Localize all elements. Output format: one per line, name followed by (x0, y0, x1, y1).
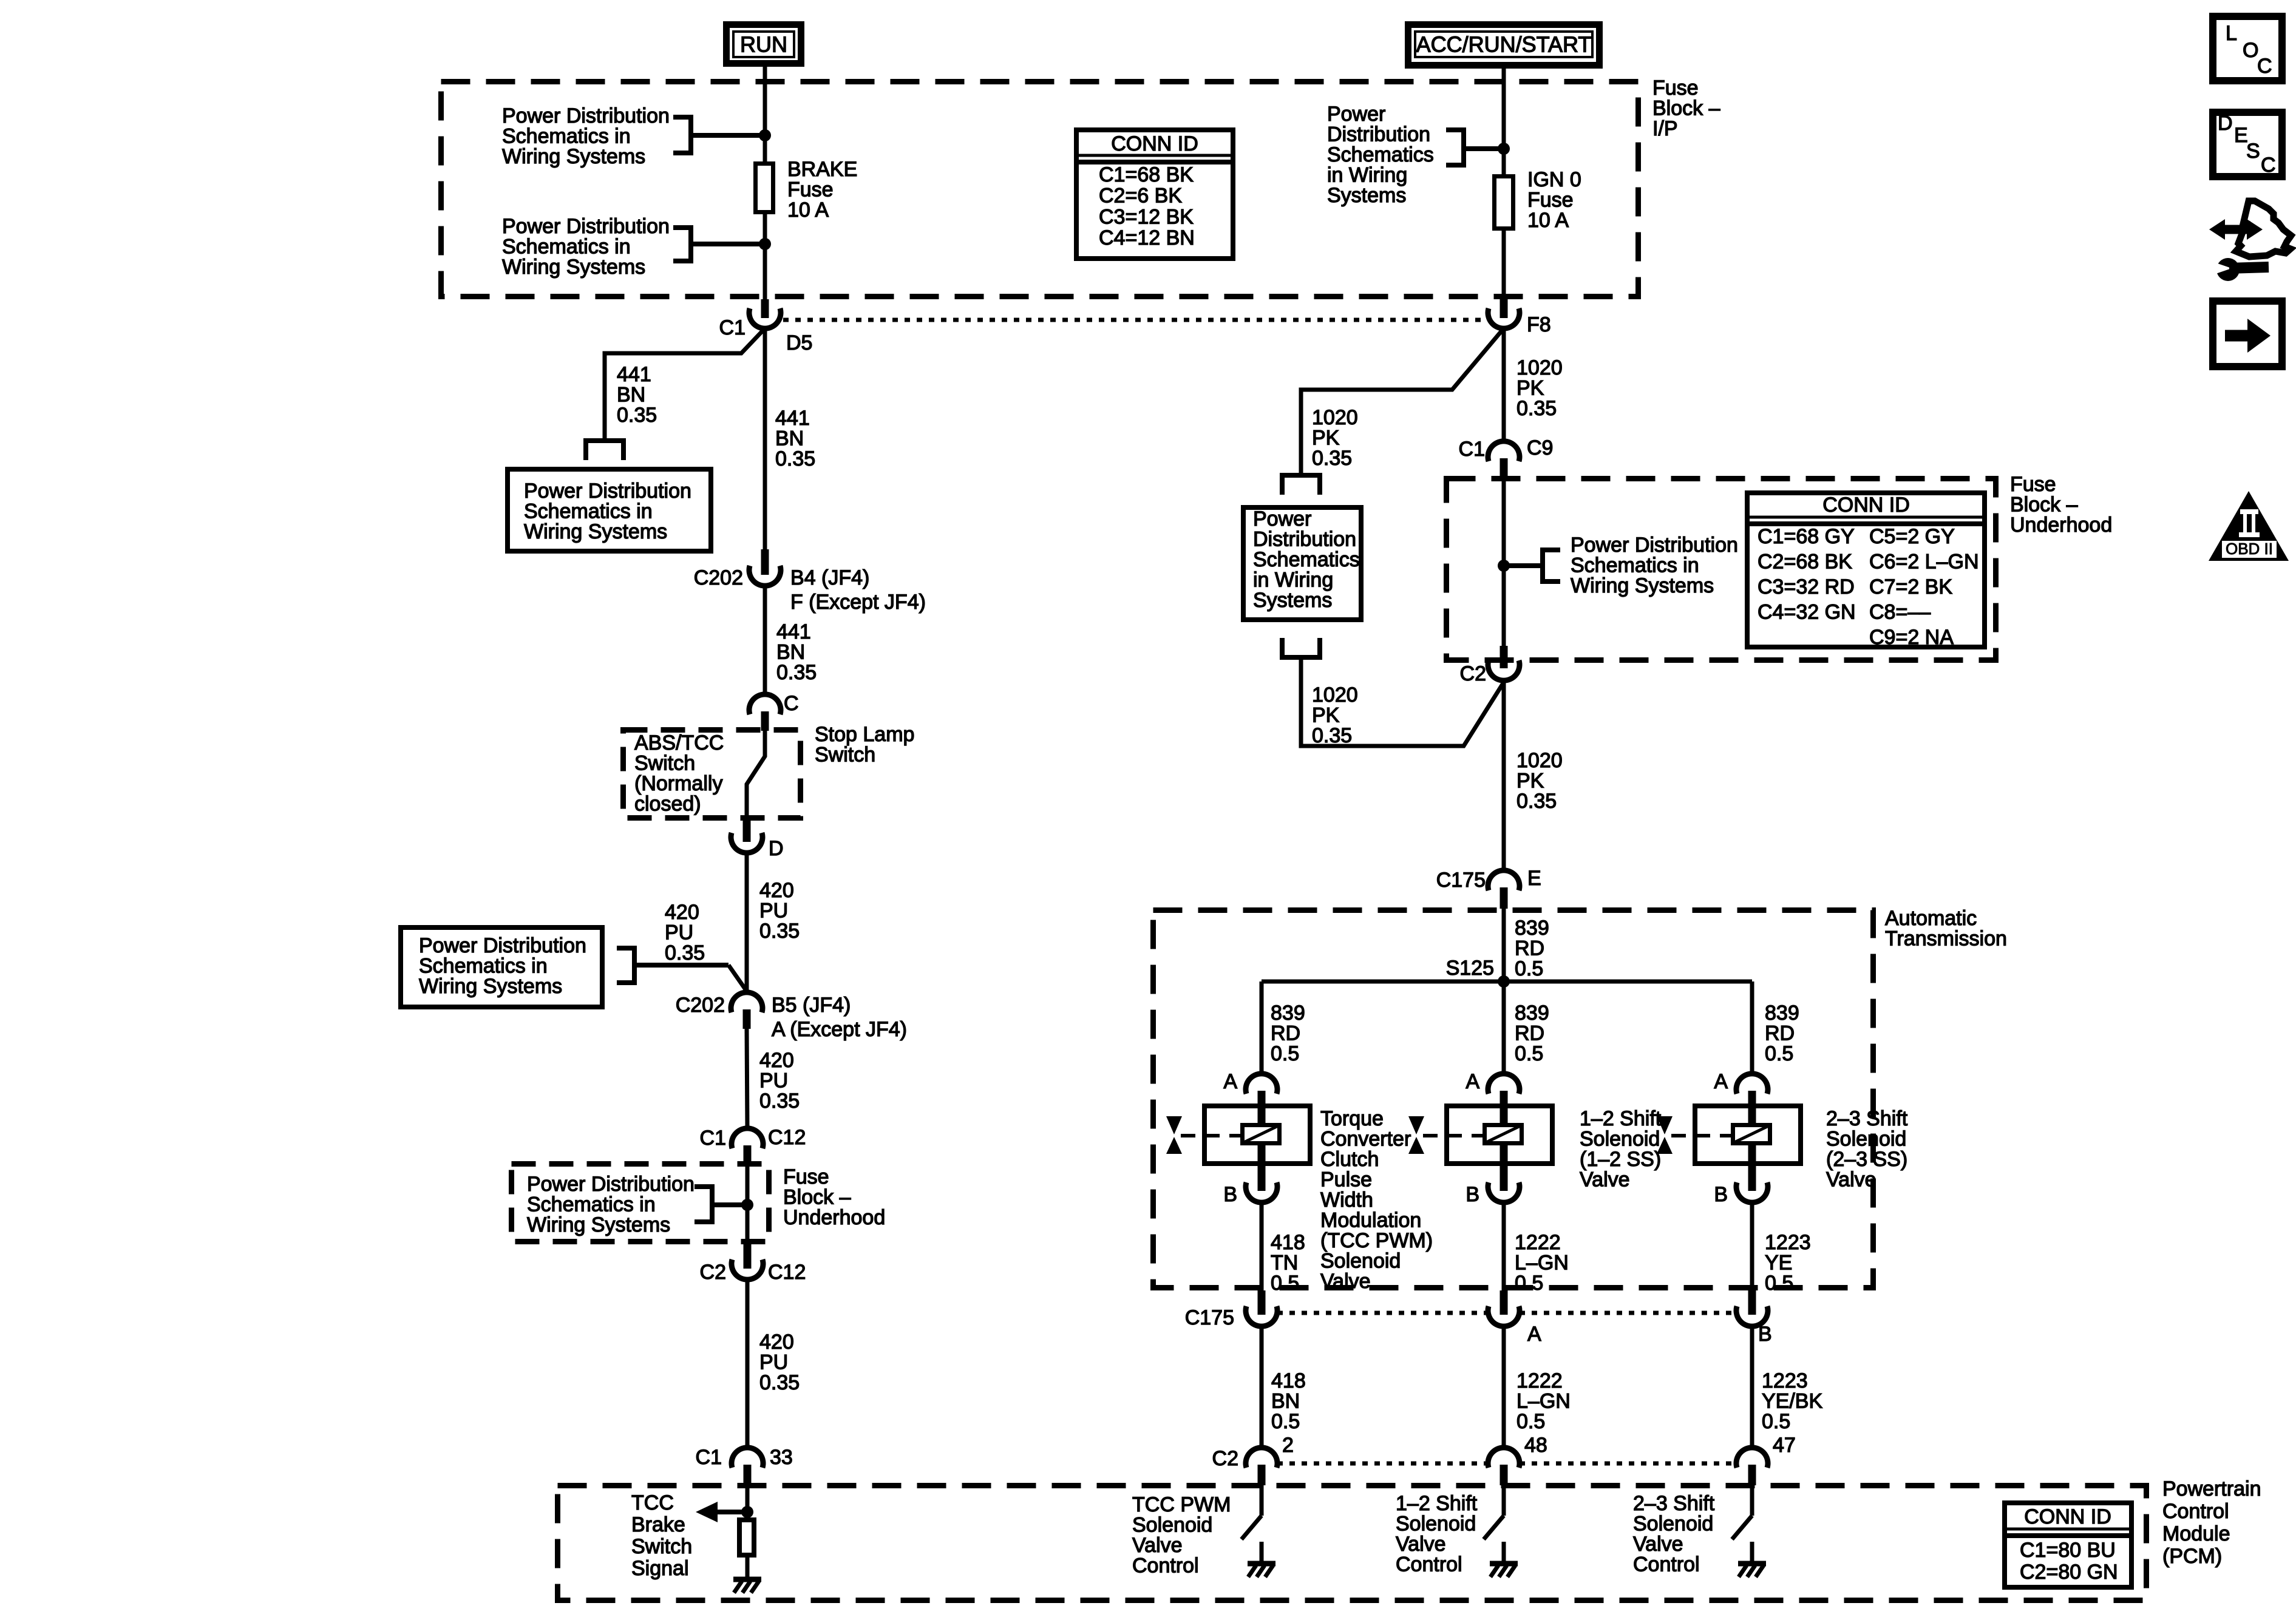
label: circuit 1020 PK 0.35 (to C175) (1517, 749, 1563, 813)
wire: 1020 to automatic transmission (1502, 680, 1506, 870)
svg-text:0.35: 0.35 (759, 920, 800, 943)
svg-text:C12: C12 (768, 1261, 806, 1284)
svg-text:420: 420 (759, 1331, 794, 1354)
wire: ACC/RUN/START feed (1502, 69, 1506, 302)
svg-text:PK: PK (1517, 770, 1544, 793)
svg-text:Block –: Block – (2010, 493, 2078, 517)
svg-text:closed): closed) (634, 793, 701, 816)
svg-text:RD: RD (1765, 1022, 1795, 1045)
switch blade (normally closed) (747, 727, 765, 821)
label: 1-2 Shift Solenoid Valve Control (1396, 1492, 1478, 1576)
svg-text:Control: Control (1132, 1554, 1199, 1578)
svg-text:B: B (1714, 1183, 1728, 1206)
svg-text:C3=12 BK: C3=12 BK (1099, 205, 1194, 228)
svg-text:Wiring Systems: Wiring Systems (502, 145, 645, 168)
svg-text:RD: RD (1271, 1022, 1300, 1045)
svg-text:0.5: 0.5 (1515, 957, 1543, 980)
connector C175 / E (1488, 870, 1520, 909)
svg-text:1–2 Shift: 1–2 Shift (1580, 1107, 1662, 1130)
svg-text:1223: 1223 (1765, 1231, 1811, 1254)
solenoid: 1-2 shift valve (1408, 1101, 1552, 1166)
svg-text:BN: BN (776, 641, 805, 664)
label C1 (PCM) (696, 1446, 722, 1469)
connector C175 row (AT pass-through) (1736, 1290, 1768, 1326)
svg-text:839: 839 (1271, 1002, 1305, 1025)
svg-text:2–3 Shift: 2–3 Shift (1633, 1492, 1715, 1515)
label: circuit 1020 PK 0.35 (branch upper) (1312, 406, 1358, 470)
label: circuit 1223 YE 0.5 (1765, 1231, 1811, 1295)
label C202 (lower) (676, 994, 725, 1017)
svg-text:Schematics in: Schematics in (1571, 554, 1699, 577)
reference box right: Power Distribution Schematics in Wiring Systems (1243, 507, 1361, 620)
label B5 (JF4) / A (Except JF4) (772, 994, 907, 1041)
svg-text:Wiring Systems: Wiring Systems (1571, 574, 1714, 597)
label C9 (1527, 436, 1553, 459)
svg-text:TCC: TCC (631, 1491, 674, 1514)
svg-text:Power Distribution: Power Distribution (527, 1173, 695, 1196)
svg-text:L: L (2226, 22, 2237, 45)
CONN ID table (Fuse Block - Underhood) (1747, 493, 1985, 649)
wire: branch from F8 to reference box (right) (1301, 328, 1504, 473)
svg-text:0.35: 0.35 (1517, 790, 1557, 813)
svg-text:E: E (1527, 867, 1541, 890)
label: circuit 839 RD 0.5 (middle branch) (1515, 1002, 1549, 1065)
wire: 2-3 shift solenoid branch (1750, 981, 1754, 1074)
svg-text:(Normally: (Normally (634, 772, 722, 795)
svg-text:Power Distribution: Power Distribution (524, 480, 691, 503)
svg-text:C1=80 BU: C1=80 BU (2020, 1539, 2116, 1562)
dotted tie line C1/D5 to F8 (783, 318, 1486, 322)
svg-text:Valve: Valve (1132, 1534, 1183, 1557)
svg-text:CONN ID: CONN ID (1822, 493, 1910, 517)
svg-text:Systems: Systems (1253, 589, 1332, 612)
label C (784, 692, 799, 715)
svg-text:C3=32 RD: C3=32 RD (1758, 575, 1855, 598)
svg-text:Fuse: Fuse (787, 178, 834, 202)
label A (1466, 1070, 1479, 1093)
Fuse Block - Underhood dashed enclosure (left) (512, 1164, 769, 1242)
connector F8 (fuse block I/P, right) (1488, 299, 1520, 328)
off-page bracket into reference box 1 (586, 438, 623, 460)
wire into PCM (brake signal) (746, 1482, 750, 1517)
label: Stop Lamp Switch (815, 723, 914, 767)
svg-text:RD: RD (1515, 937, 1544, 960)
svg-text:C1: C1 (719, 316, 746, 339)
svg-text:1223: 1223 (1762, 1369, 1808, 1392)
connector C1 / D5 (fuse block I/P, left) (749, 299, 781, 328)
svg-text:420: 420 (759, 879, 794, 902)
svg-text:C1: C1 (1459, 438, 1485, 461)
svg-text:B: B (1466, 1183, 1479, 1206)
svg-text:441: 441 (775, 407, 810, 430)
svg-text:PU: PU (759, 1070, 788, 1093)
label: circuit 418 TN 0.5 (1271, 1231, 1305, 1295)
svg-text:ACC/RUN/START: ACC/RUN/START (1416, 32, 1592, 56)
icon: LOC box (2213, 16, 2282, 81)
label E (1527, 867, 1541, 890)
label: IGN 0 Fuse 10 A (1527, 168, 1581, 232)
label: Automatic Transmission (1885, 907, 2007, 951)
svg-text:Control: Control (1396, 1553, 1462, 1576)
svg-text:420: 420 (665, 901, 699, 924)
svg-text:441: 441 (617, 363, 651, 386)
svg-text:1020: 1020 (1517, 356, 1563, 379)
svg-text:C5=2 GY: C5=2 GY (1869, 525, 1955, 548)
svg-text:D: D (2218, 112, 2233, 135)
svg-text:Valve: Valve (1826, 1168, 1877, 1192)
svg-text:ABS/TCC: ABS/TCC (634, 731, 724, 754)
svg-text:Wiring Systems: Wiring Systems (524, 520, 667, 543)
svg-text:Transmission: Transmission (1885, 927, 2007, 951)
svg-text:C6=2 L–GN: C6=2 L–GN (1869, 551, 1979, 574)
label A (1223, 1070, 1237, 1093)
svg-text:in Wiring: in Wiring (1253, 569, 1333, 592)
svg-text:418: 418 (1271, 1231, 1305, 1254)
svg-text:0.5: 0.5 (1271, 1042, 1299, 1065)
svg-text:Solenoid: Solenoid (1396, 1513, 1476, 1536)
svg-text:0.35: 0.35 (776, 661, 817, 684)
junction node (brake signal) (741, 1506, 753, 1518)
solenoid: 2-3 shift valve (1657, 1101, 1801, 1166)
svg-text:Distribution: Distribution (1253, 528, 1356, 551)
label F8 (1527, 313, 1551, 336)
svg-text:0.35: 0.35 (759, 1090, 800, 1113)
reference: Power Distribution Schematics in Wiring Systems (underhood right) (1571, 534, 1738, 597)
label: circuit 1222 L-GN 0.5 (in AT) (1515, 1231, 1569, 1295)
label: circuit 420 PU 0.35 (to PCM) (759, 1331, 800, 1394)
svg-text:C1: C1 (696, 1446, 722, 1469)
svg-text:47: 47 (1773, 1434, 1796, 1457)
wire: RUN feed into fuse block (763, 67, 767, 302)
bracket (underhood reference) (695, 1184, 745, 1224)
wire: branch rejoining at C2 (1301, 657, 1504, 746)
Fuse Block - Underhood dashed enclosure (right) (1447, 479, 1996, 660)
svg-text:B: B (1758, 1323, 1772, 1346)
svg-text:Solenoid: Solenoid (1580, 1128, 1660, 1151)
wire: 1-2 shift solenoid branch (1502, 981, 1506, 1074)
connector B (solenoid) (1488, 1166, 1520, 1202)
svg-text:Schematics: Schematics (1327, 143, 1434, 166)
driver switch: TCC PWM solenoid valve control (1241, 1483, 1275, 1577)
svg-text:RUN: RUN (740, 32, 787, 56)
label C1 (underhood) (700, 1127, 726, 1150)
wire: 839 feed to splice (1502, 909, 1506, 981)
Fuse Block - I/P dashed enclosure (441, 82, 1639, 297)
bracket (underhood right reference) (1506, 547, 1560, 584)
connector C1 / C9 (1488, 441, 1520, 476)
reference box: Power Distribution Schematics in Wiring Systems (508, 469, 711, 551)
svg-text:B4 (JF4): B4 (JF4) (790, 566, 869, 589)
svg-text:B: B (1223, 1183, 1237, 1206)
svg-text:48: 48 (1524, 1434, 1547, 1457)
label: circuit 418 BN 0.5 (1271, 1369, 1306, 1433)
svg-text:C2: C2 (1212, 1447, 1238, 1470)
svg-text:S: S (2246, 140, 2260, 163)
svg-text:Solenoid: Solenoid (1320, 1250, 1401, 1273)
connector C2/PCM pin row (1246, 1448, 1277, 1485)
svg-text:0.35: 0.35 (1517, 397, 1557, 420)
icon: wrench (2212, 258, 2269, 281)
solenoid: torque converter clutch PWM valve (1166, 1101, 1310, 1166)
connector C175 row (AT pass-through) (1246, 1290, 1277, 1326)
svg-text:PK: PK (1312, 427, 1340, 450)
svg-text:A: A (1527, 1323, 1541, 1346)
svg-text:1222: 1222 (1515, 1231, 1561, 1254)
Automatic Transmission dashed enclosure (1153, 910, 1873, 1288)
svg-text:C: C (784, 692, 799, 715)
svg-text:Schematics in: Schematics in (527, 1193, 656, 1216)
wire: 1020 main run to C1/C9 (1502, 328, 1506, 441)
junction node (RUN feed / reference 1) (759, 129, 771, 141)
label A (1714, 1070, 1728, 1093)
svg-text:YE/BK: YE/BK (1762, 1390, 1822, 1413)
label: circuit 441 BN 0.35 (to switch) (776, 620, 817, 684)
connector B (solenoid) (1736, 1166, 1768, 1202)
connector C2 (underhood right) (1488, 646, 1520, 680)
connector A (solenoid) (1246, 1074, 1277, 1106)
label C175 (E row) (1436, 869, 1486, 892)
label B (1714, 1183, 1728, 1206)
svg-text:0.5: 0.5 (1765, 1042, 1793, 1065)
svg-text:Block –: Block – (1652, 97, 1720, 120)
svg-text:839: 839 (1515, 1002, 1549, 1025)
junction node (underhood right reference) (1498, 560, 1510, 572)
svg-text:0.35: 0.35 (1312, 447, 1352, 470)
reference box 2: Power Distribution Schematics in Wiring Systems (401, 927, 602, 1007)
svg-text:1020: 1020 (1312, 683, 1358, 707)
svg-text:Schematics in: Schematics in (524, 500, 653, 523)
svg-text:0.5: 0.5 (1515, 1042, 1543, 1065)
svg-text:0.35: 0.35 (1312, 724, 1352, 747)
svg-text:2: 2 (1282, 1434, 1294, 1457)
svg-text:PU: PU (759, 900, 788, 923)
label B (row 2) (1758, 1323, 1772, 1346)
wire: 420 to PCM (746, 1280, 750, 1448)
svg-text:Width: Width (1320, 1188, 1373, 1212)
wire: solenoid return (1260, 1202, 1264, 1290)
ignition switch position box ACC/RUN/START (1408, 25, 1600, 66)
wire: branch from C1/D5 to reference box (605, 328, 765, 439)
svg-text:RD: RD (1515, 1022, 1544, 1045)
svg-text:0.5: 0.5 (1515, 1272, 1543, 1295)
label C2 (PCM) (1212, 1447, 1238, 1470)
svg-text:A: A (1223, 1070, 1237, 1093)
svg-text:C9: C9 (1527, 436, 1553, 459)
label C12 (upper) (768, 1126, 806, 1149)
svg-text:1020: 1020 (1517, 749, 1563, 772)
svg-text:F8: F8 (1527, 313, 1551, 336)
splice S125 bus (1262, 980, 1752, 984)
label C1 (719, 316, 746, 339)
svg-text:C9=2 NA: C9=2 NA (1869, 626, 1954, 649)
svg-text:C175: C175 (1436, 869, 1486, 892)
svg-text:Power Distribution: Power Distribution (502, 215, 670, 238)
label: 2-3 Shift Solenoid Valve Control (1633, 1492, 1715, 1576)
label pin 2 (1282, 1434, 1294, 1457)
svg-text:Schematics in: Schematics in (502, 125, 631, 148)
svg-text:IGN 0: IGN 0 (1527, 168, 1581, 191)
svg-text:C1=68 BK: C1=68 BK (1099, 163, 1194, 186)
wire to ground (PCM) (746, 1558, 750, 1579)
wire: to PCM (1502, 1326, 1506, 1448)
svg-text:0.5: 0.5 (1765, 1272, 1793, 1295)
svg-text:C202: C202 (676, 994, 725, 1017)
svg-text:420: 420 (759, 1049, 794, 1072)
svg-text:Distribution: Distribution (1327, 123, 1430, 146)
svg-text:CONN ID: CONN ID (1111, 132, 1198, 155)
svg-text:Powertrain: Powertrain (2162, 1477, 2261, 1500)
svg-text:Valve: Valve (1396, 1533, 1446, 1556)
wire: 420 from switch (745, 853, 749, 992)
svg-text:PU: PU (665, 921, 693, 944)
svg-text:Solenoid: Solenoid (1132, 1514, 1212, 1537)
label: circuit 1020 PK 0.35 (branch lower) (1312, 683, 1358, 747)
wire: 441 to stop lamp switch (763, 586, 767, 694)
svg-text:BN: BN (1271, 1390, 1300, 1413)
svg-text:OBD II: OBD II (2226, 540, 2273, 558)
svg-text:Pulse: Pulse (1320, 1168, 1372, 1192)
connector A (solenoid) (1736, 1074, 1768, 1106)
wire: TCC PWM solenoid branch (1260, 981, 1264, 1074)
driver switch: 2-3 shift solenoid valve control (1732, 1483, 1766, 1577)
wire through underhood block (746, 1164, 750, 1242)
svg-text:D5: D5 (786, 331, 812, 354)
svg-text:C1=68 GY: C1=68 GY (1758, 525, 1855, 548)
svg-text:A (Except JF4): A (Except JF4) (772, 1018, 907, 1041)
svg-text:Underhood: Underhood (783, 1206, 885, 1229)
label 33 (770, 1446, 793, 1469)
svg-text:C: C (2261, 154, 2276, 177)
label B4 (JF4) / F (Except JF4) (790, 566, 926, 614)
Powertrain Control Module dashed enclosure (558, 1486, 2147, 1601)
svg-text:L–GN: L–GN (1515, 1252, 1569, 1275)
svg-text:Brake: Brake (631, 1513, 685, 1536)
svg-text:Control: Control (1633, 1553, 1700, 1576)
svg-text:0.5: 0.5 (1517, 1410, 1545, 1433)
label: Powertrain Control Module (PCM) (2162, 1477, 2261, 1568)
label pin 48 (1524, 1434, 1547, 1457)
svg-text:(PCM): (PCM) (2162, 1545, 2222, 1568)
CONN ID table (PCM) (2005, 1503, 2131, 1587)
svg-text:Power: Power (1253, 507, 1311, 531)
svg-text:Power Distribution: Power Distribution (502, 104, 670, 127)
svg-text:D: D (769, 837, 784, 860)
svg-text:Fuse: Fuse (783, 1165, 829, 1188)
svg-text:839: 839 (1765, 1002, 1799, 1025)
label: TCC Brake Switch Signal (631, 1491, 692, 1580)
svg-text:YE: YE (1765, 1252, 1792, 1275)
svg-text:Power: Power (1327, 103, 1385, 126)
label: circuit 839 RD 0.5 (above splice) (1515, 917, 1549, 980)
svg-text:C2=80 GN: C2=80 GN (2020, 1561, 2118, 1584)
connector C202 / B5 (731, 992, 763, 1029)
label: circuit 441 BN 0.35 (main) (775, 407, 815, 470)
svg-text:0.5: 0.5 (1762, 1410, 1790, 1433)
label: 1-2 Shift Solenoid (1-2 SS) Valve (1580, 1107, 1662, 1192)
CONN ID table (Fuse Block - I/P) (1076, 130, 1233, 259)
label: BRAKE Fuse 10 A (787, 158, 857, 222)
svg-text:1222: 1222 (1517, 1369, 1563, 1392)
svg-text:A: A (1714, 1070, 1728, 1093)
bracket to RUN feed (lower) (673, 225, 763, 263)
svg-text:Fuse: Fuse (1527, 189, 1574, 212)
svg-text:Clutch: Clutch (1320, 1148, 1379, 1171)
label: Fuse Block - Underhood (left) (783, 1165, 885, 1229)
wire: 441 main run (763, 328, 767, 549)
connector C2/PCM pin row (1736, 1448, 1768, 1485)
svg-text:Systems: Systems (1327, 184, 1406, 207)
dotted tie line C175 row (1277, 1311, 1736, 1315)
svg-text:BN: BN (775, 427, 804, 450)
label: 2-3 Shift Solenoid (2-3 SS) Valve (1826, 1107, 1908, 1192)
svg-text:Wiring Systems: Wiring Systems (527, 1213, 670, 1236)
reference: Power Distribution Schematics in Wiring Systems (upper left) (502, 104, 670, 168)
svg-text:Fuse: Fuse (2010, 473, 2056, 496)
icon: throttle outline with arrows (2209, 201, 2291, 257)
bracket to IGN 0 feed (1446, 127, 1501, 168)
svg-text:B5 (JF4): B5 (JF4) (772, 994, 851, 1017)
svg-text:PK: PK (1517, 377, 1544, 400)
junction node (underhood reference) (741, 1199, 753, 1211)
svg-text:C4=32 GN: C4=32 GN (1758, 601, 1856, 624)
svg-text:Valve: Valve (1580, 1168, 1630, 1192)
connector D (stop lamp switch) (731, 821, 763, 853)
svg-text:Block –: Block – (783, 1186, 851, 1209)
svg-text:TN: TN (1271, 1252, 1298, 1275)
connector C1 / 33 (PCM) (732, 1448, 763, 1485)
wire: 420 to fuse block underhood (747, 1029, 747, 1128)
bracket from reference box 2 (617, 946, 747, 991)
connector C1 / C12 (732, 1128, 763, 1167)
svg-text:Signal: Signal (631, 1557, 689, 1580)
svg-text:(TCC PWM): (TCC PWM) (1320, 1229, 1433, 1252)
connector C2 / C12 (732, 1242, 763, 1280)
label C202 (upper) (694, 566, 743, 589)
svg-text:0.5: 0.5 (1271, 1272, 1299, 1295)
svg-text:Schematics in: Schematics in (419, 955, 548, 978)
label: circuit 1223 YE/BK 0.5 (1762, 1369, 1822, 1433)
label: circuit 420 PU 0.35 (below D) (759, 879, 800, 943)
svg-text:C8=––: C8=–– (1869, 601, 1931, 624)
svg-text:S125: S125 (1446, 957, 1494, 980)
svg-text:Power Distribution: Power Distribution (1571, 534, 1738, 557)
svg-text:Switch: Switch (634, 752, 695, 775)
reference: Power Distribution Schematics in Wiring Systems (right of IGN 0) (1327, 103, 1434, 207)
svg-text:TCC PWM: TCC PWM (1132, 1493, 1231, 1516)
label C12 (lower) (768, 1261, 806, 1284)
connector C202 / B4 (749, 549, 781, 586)
connector C2/PCM pin row (1488, 1448, 1520, 1485)
wire: to PCM (1260, 1326, 1264, 1448)
svg-text:10 A: 10 A (787, 198, 829, 222)
label: Fuse Block - Underhood (right) (2010, 473, 2112, 537)
resistor (PCM pull-up) (739, 1520, 754, 1555)
label C2 (underhood) (700, 1261, 726, 1284)
svg-text:0.35: 0.35 (759, 1371, 800, 1394)
svg-text:Stop Lamp: Stop Lamp (815, 723, 914, 746)
bracket to RUN feed (upper) (673, 115, 763, 155)
reference: Power Distribution Schematics in Wiring Systems (underhood) (527, 1173, 695, 1236)
svg-text:441: 441 (776, 620, 811, 643)
svg-text:(1–2 SS): (1–2 SS) (1580, 1148, 1661, 1171)
svg-text:C: C (2257, 55, 2272, 78)
signal arrow (TCC brake switch signal) (696, 1502, 747, 1522)
svg-text:Wiring Systems: Wiring Systems (502, 256, 645, 279)
junction node (RUN feed / reference 2) (759, 238, 771, 250)
label: circuit 1222 L-GN 0.5 (to PCM) (1517, 1369, 1571, 1433)
svg-text:C2=68 BK: C2=68 BK (1758, 551, 1852, 574)
fuse BRAKE 10 A (756, 164, 773, 212)
